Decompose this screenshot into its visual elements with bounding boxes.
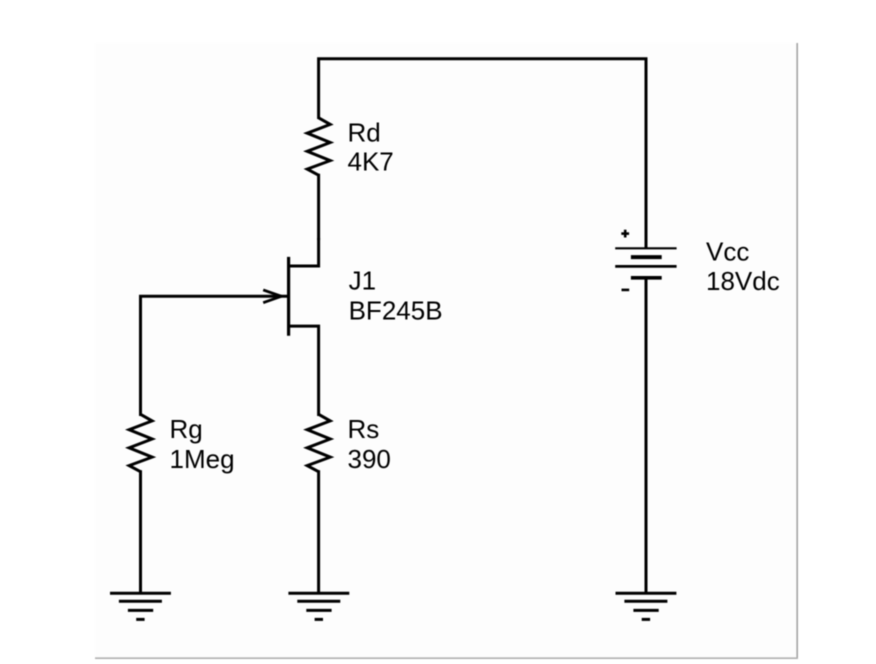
resistor Rg [129,414,152,471]
ground (under Rs) [288,593,349,619]
resistor Rs [307,414,330,471]
label Rs 390 [348,414,391,474]
wire Rs bottom to ground [317,470,320,593]
svg-text:4K7: 4K7 [348,146,394,176]
plus sign [621,232,629,235]
plate 3 long [615,265,676,268]
wire Vcc- to ground [645,278,648,593]
svg-text:1Meg: 1Meg [170,444,235,474]
gate arrowhead [263,290,281,303]
ground (under Rg) [110,593,171,619]
svg-text:390: 390 [348,444,391,474]
plate 4 short thick [631,276,662,280]
label Rg 1Meg [170,414,235,474]
wire Rd bottom to J1 drain [317,174,320,240]
svg-text:Rs: Rs [348,414,380,444]
minus sign [622,289,630,292]
svg-text:Vcc: Vcc [706,237,749,267]
label Vcc 18Vdc [706,237,780,297]
plate 1 long [615,247,676,249]
svg-text:BF245B: BF245B [349,296,443,326]
svg-text:Rd: Rd [348,118,381,148]
label Rd 4K7 [348,118,394,177]
battery Vcc (DC source) [615,230,676,290]
drain lead [287,238,318,266]
wire Rg bottom to ground [139,470,142,593]
wire Vcc+ to Rd top (supply net) [319,59,646,249]
ground (under Vcc) [616,593,677,619]
svg-text:Rg: Rg [170,414,203,444]
transistor J1 (n-JFET) [263,238,318,416]
wire gate (J1 gate to Rg top) [141,296,288,416]
label J1 BF245B [349,266,443,326]
svg-text:J1: J1 [349,266,376,296]
channel bar [287,257,290,336]
svg-text:18Vdc: 18Vdc [706,266,780,296]
resistor Rd [307,118,330,175]
source lead [287,326,318,416]
plate 2 short thick [631,255,662,259]
